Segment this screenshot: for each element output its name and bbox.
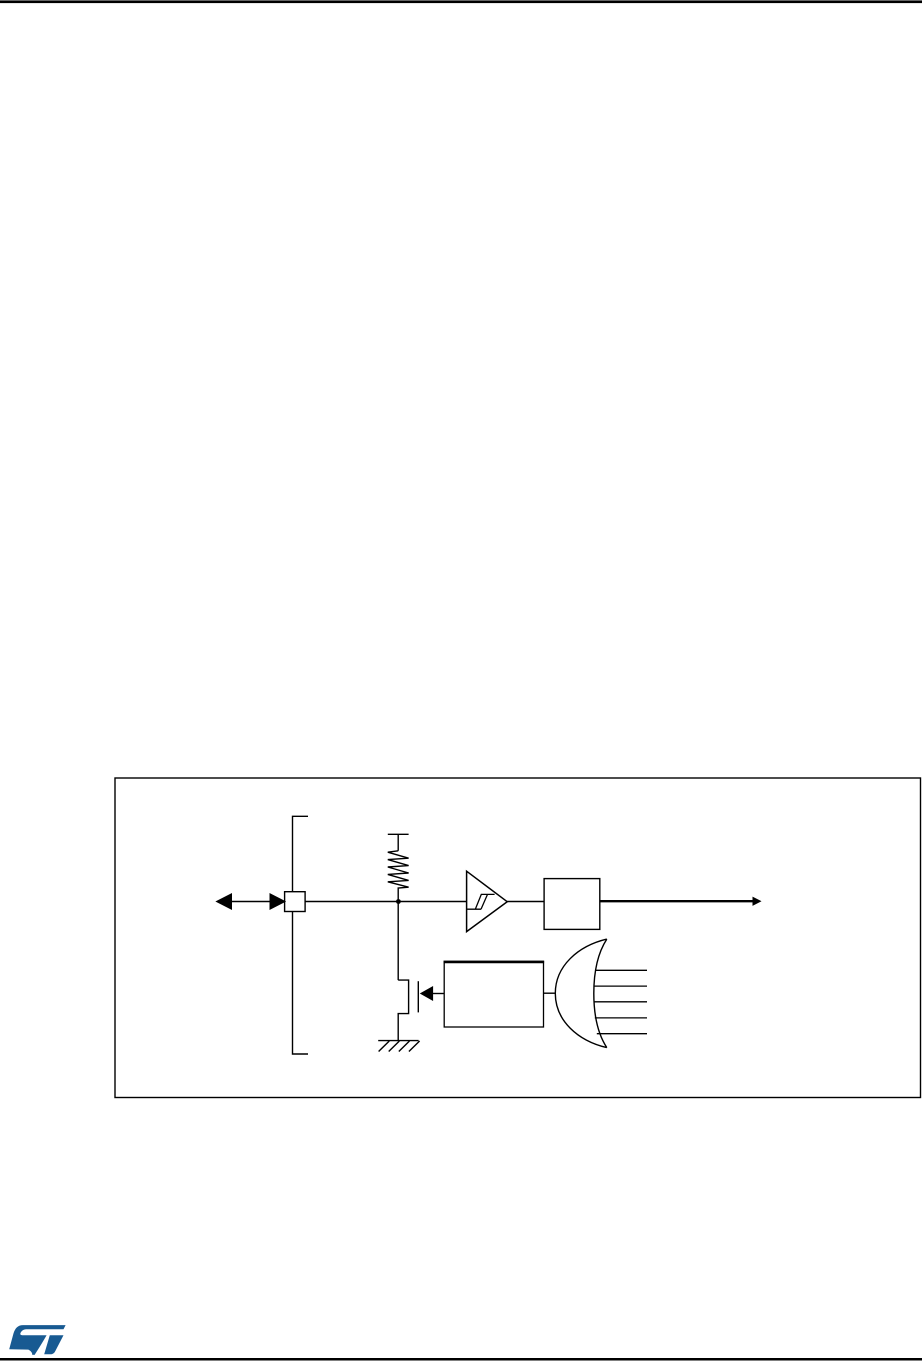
- ST logo: [9, 1325, 65, 1355]
- node junction dot: [396, 899, 401, 904]
- gate wire with arrow: [421, 987, 444, 1000]
- output stage box: [544, 879, 600, 930]
- or gate input lines: [594, 970, 647, 1033]
- wire: junction to mosfet drain: [397, 902, 399, 981]
- figure frame: [115, 778, 921, 1098]
- ground symbol: [378, 1041, 419, 1052]
- wire: or-gate output to control box: [544, 992, 556, 994]
- nmos pull-down transistor: [398, 980, 418, 1041]
- or gate (facing left): [555, 939, 607, 1048]
- bidirectional I/O arrow: [217, 894, 285, 909]
- top header rule: [0, 0, 922, 3]
- schmitt trigger input buffer: [467, 871, 508, 931]
- I/O pad square: [285, 892, 306, 912]
- bottom footer rule: [0, 1358, 922, 1361]
- wire: pad to schmitt input: [305, 901, 467, 903]
- control logic box (bold top edge): [444, 961, 544, 1027]
- wire: schmitt to output box: [507, 901, 544, 903]
- pull-up resistor: [388, 834, 409, 901]
- output arrow (bold): [600, 897, 761, 905]
- port bracket: [293, 816, 309, 1054]
